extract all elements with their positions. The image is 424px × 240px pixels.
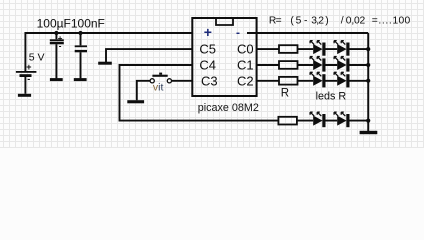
node junction dot cap C2 on rail — [78, 31, 82, 35]
capacitor C2 100nF plates — [75, 45, 87, 52]
node junction dot rail row C2 — [366, 79, 370, 83]
svg-text:-: - — [304, 16, 307, 27]
svg-text:+: + — [26, 62, 31, 72]
formula text tokens — [269, 16, 411, 27]
node junction dot cap C1 on rail — [54, 31, 58, 35]
svg-text:(: ( — [290, 16, 294, 27]
svg-text:-: - — [27, 74, 30, 84]
svg-text:): ) — [325, 16, 328, 27]
wire capacitor C1 stubs — [55, 33, 57, 78]
ground capacitor C2 — [74, 78, 87, 81]
ground right rail — [360, 131, 378, 134]
wire switch to ground — [137, 81, 150, 100]
switch S1 actuator bar — [152, 75, 167, 77]
LED D1 row C0 first — [310, 41, 325, 56]
node junction dot rail bottom row — [366, 119, 370, 123]
svg-text:R=: R= — [269, 16, 282, 27]
node junction dot rail row C0 — [366, 47, 370, 51]
svg-text:C4: C4 — [199, 58, 216, 73]
IC notch — [216, 19, 233, 25]
LED D8 bottom row second — [334, 112, 349, 127]
wire row C2 segments — [257, 80, 369, 82]
battery B1 5V cell plates — [16, 71, 37, 77]
wire row C4-bottom segments — [298, 120, 369, 122]
LED D7 bottom row first — [310, 112, 325, 127]
resistor R1 — [279, 45, 298, 53]
wire IC minus pin to right ground rail — [247, 32, 368, 34]
svg-text:2: 2 — [318, 16, 324, 27]
svg-text:/: / — [341, 16, 344, 27]
resistor R2 — [279, 61, 298, 69]
switch S1 vit pushbutton contacts — [150, 79, 171, 83]
ground C5 pin — [98, 62, 112, 65]
svg-text:C2: C2 — [237, 73, 254, 88]
svg-text:100µF100nF: 100µF100nF — [37, 16, 105, 30]
svg-text:-: - — [59, 42, 62, 51]
wire C5 to ground stub — [106, 49, 192, 62]
svg-text:C3: C3 — [201, 73, 218, 88]
svg-text:C1: C1 — [237, 58, 254, 73]
node junction dot rail row C1 — [366, 63, 370, 67]
ground battery — [18, 94, 31, 97]
svg-text:-: - — [236, 25, 240, 39]
svg-text:....: .... — [378, 16, 392, 27]
svg-text:C5: C5 — [199, 42, 216, 57]
IC U1 picaxe 08M2 body — [192, 18, 256, 96]
LED D4 row C1 second — [334, 57, 349, 72]
resistor R4 — [278, 117, 297, 125]
wire C4 to bottom LED row — [120, 65, 280, 121]
wire row C0 segments — [257, 48, 369, 50]
svg-text:=: = — [372, 16, 378, 27]
svg-text:0,02: 0,02 — [346, 16, 366, 27]
svg-text:C0: C0 — [237, 42, 254, 57]
svg-text:R: R — [281, 88, 289, 100]
wire right ground rail vertical — [367, 33, 369, 131]
LED D6 row C2 second — [334, 72, 349, 87]
capacitor C1 100uF plates — [50, 39, 64, 44]
wire battery negative to ground — [24, 77, 26, 94]
wire capacitor C2 stubs — [80, 33, 82, 78]
svg-text:leds R: leds R — [316, 91, 347, 103]
wire top rail from battery to IC — [25, 33, 192, 71]
ground switch S1 — [127, 100, 144, 103]
wire C3 to switch — [171, 80, 192, 82]
svg-text:vit: vit — [153, 81, 164, 93]
resistor R3 — [279, 77, 298, 85]
ground capacitor C1 — [50, 78, 63, 81]
svg-text:100: 100 — [393, 16, 411, 27]
svg-text:picaxe 08M2: picaxe 08M2 — [198, 102, 259, 114]
switch S1 actuator nub — [159, 73, 162, 75]
LED D3 row C1 first — [310, 57, 325, 72]
svg-text:5 V: 5 V — [29, 51, 45, 63]
wire row C1 segments — [257, 64, 369, 66]
LED D2 row C0 second — [334, 41, 349, 56]
svg-text:5: 5 — [296, 16, 302, 27]
LED D5 row C2 first — [310, 72, 325, 87]
svg-text:+: + — [204, 24, 212, 40]
